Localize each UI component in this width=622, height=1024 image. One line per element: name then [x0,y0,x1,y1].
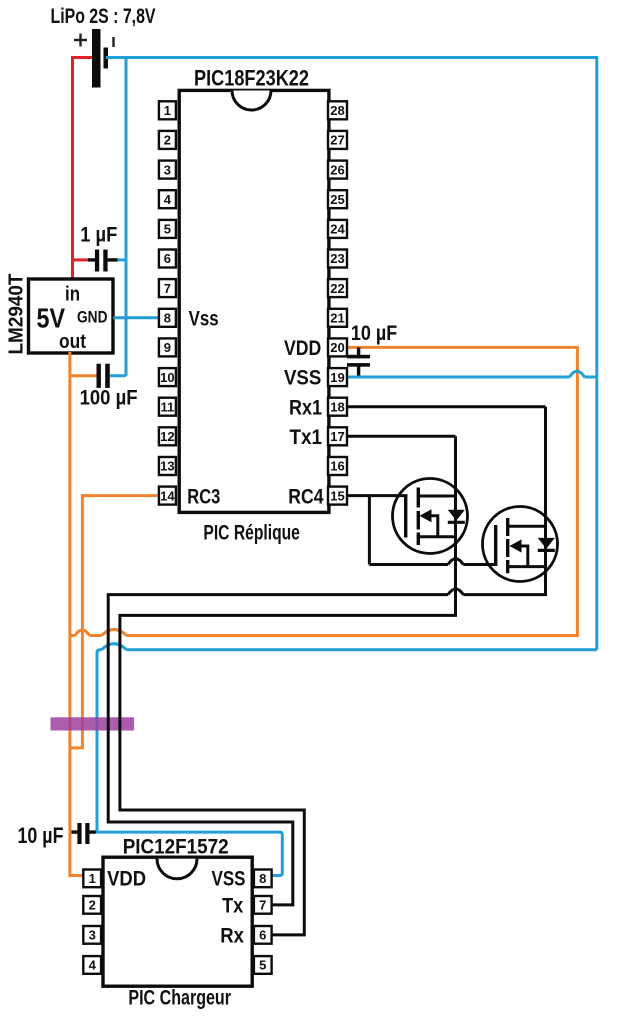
pin 3 PIC18 [159,161,176,179]
IC U3 PIC12F1572 body [103,857,252,986]
pin 11 PIC18 [159,398,176,416]
wire orange RC3 [70,496,160,748]
svg-text:Rx: Rx [220,924,244,947]
pin 4 PIC18 [159,190,176,208]
svg-text:12: 12 [160,429,174,444]
svg-text:PIC12F1572: PIC12F1572 [123,835,229,858]
wire blue hop over black verticals [102,644,127,650]
wire orange segment to main vertical [70,634,75,637]
svg-text:Tx1: Tx1 [290,426,323,449]
pin 21 PIC18 [328,309,347,327]
svg-text:PIC18F23K22: PIC18F23K22 [194,66,309,91]
wire blue to PIC12 VSS [96,832,282,875]
pin 8 PIC12 [254,870,272,888]
wire black hop over Q1 source vertical [448,559,463,565]
svg-text:Tx: Tx [222,894,243,917]
svg-text:9: 9 [164,340,171,355]
svg-text:25: 25 [330,192,344,207]
pin 28 PIC18 [328,101,347,119]
connector purple [51,717,135,730]
svg-text:21: 21 [330,311,344,326]
pin 24 PIC18 [328,220,347,238]
svg-text:VDD: VDD [284,337,321,360]
svg-text:8: 8 [259,871,266,886]
svg-text:10 µF: 10 µF [18,823,64,848]
pin 19 PIC18 [328,368,347,386]
svg-text:6: 6 [259,928,266,943]
svg-text:LiPo 2S : 7,8V: LiPo 2S : 7,8V [51,5,156,28]
wire black Rx1 to Q2 drain [347,405,546,408]
wire red battery+ to regulator in [73,58,93,281]
svg-text:11: 11 [161,399,175,414]
svg-text:7: 7 [259,898,266,913]
wire blue pin19 VSS [347,376,570,379]
svg-text:8: 8 [164,311,171,326]
wire blue down left vertical [97,650,102,832]
svg-text:RC3: RC3 [187,485,220,508]
wire orange hop over RC3 vertical [75,630,90,636]
pin 20 PIC18 [328,338,347,356]
svg-text:15: 15 [330,488,344,503]
svg-text:28: 28 [330,103,344,118]
svg-text:GND: GND [77,309,108,327]
svg-text:6: 6 [164,251,171,266]
wire blue hop over orange vertical [570,371,585,377]
svg-text:3: 3 [89,928,96,943]
wire orange VDD run right [127,347,578,635]
wire blue branch battery to caps [125,56,128,376]
pin 15 PIC18 [328,487,347,505]
svg-text:26: 26 [330,162,344,177]
svg-text:1 µF: 1 µF [80,224,117,247]
svg-text:PIC Chargeur: PIC Chargeur [128,986,231,1009]
capacitor C1 1uF [88,250,118,272]
transistor Q2 [483,507,558,582]
svg-text:VSS: VSS [212,867,246,890]
pin 23 PIC18 [328,250,347,268]
svg-text:13: 13 [160,459,174,474]
wire orange regulator out main vertical [70,352,84,876]
pin 4 PIC12 [83,956,101,974]
pin 22 PIC18 [328,279,347,297]
transistor Q1 [393,479,468,554]
pin 18 PIC18 [328,398,347,416]
svg-text:5V: 5V [37,303,66,334]
svg-text:18: 18 [330,399,344,414]
battery BT1 [74,29,114,88]
svg-text:16: 16 [330,459,344,474]
svg-text:LM2940T: LM2940T [6,274,28,355]
pin 27 PIC18 [328,131,347,149]
svg-text:20: 20 [330,340,344,355]
wire black pin15 RC4 to Q1 gate [347,494,408,497]
wire black Q2 drain-source vertical and run to PIC12 Tx [463,407,545,595]
IC U1 PIC18F23K22 body [179,90,329,512]
pin 3 PIC12 [83,926,101,944]
wire black gate tee vertical [368,496,371,565]
wire blue C1 lead [117,258,126,261]
pin 2 PIC18 [159,131,176,149]
svg-text:19: 19 [330,370,344,385]
wire black gate run to Q2 [369,563,448,566]
wire blue bottom run [127,648,597,651]
pin 7 PIC18 [159,279,176,297]
svg-text:2: 2 [164,133,171,148]
pin 25 PIC18 [328,190,347,208]
pin 10 PIC18 [159,368,176,386]
pin 16 PIC18 [328,457,347,475]
wire orange segment [90,634,102,637]
svg-text:Vss: Vss [189,307,219,330]
wire black run to PIC12 Tx [108,595,448,905]
svg-text:RC4: RC4 [288,485,323,508]
svg-text:10 µF: 10 µF [351,322,397,345]
svg-text:3: 3 [164,162,171,177]
pin 6 PIC12 [254,926,272,944]
pin 8 PIC18 [159,309,176,327]
svg-text:out: out [59,331,86,353]
svg-text:Rx1: Rx1 [289,396,322,419]
pin 26 PIC18 [328,161,347,179]
pin 1 PIC18 [159,101,176,119]
pin 13 PIC18 [159,457,176,475]
svg-text:10: 10 [160,370,174,385]
svg-text:1: 1 [164,103,171,118]
wire black hop over Q1 vertical [448,589,463,595]
svg-text:17: 17 [330,429,344,444]
wire blue segment to right vertical [585,376,597,379]
pin 1 PIC12 [83,870,101,888]
svg-text:5: 5 [164,222,171,237]
capacitor C3 10uF top [347,347,370,377]
pin 9 PIC18 [159,338,176,356]
wire blue regulator GND to pin8 [113,316,159,319]
svg-text:100 µF: 100 µF [80,386,138,409]
svg-text:1: 1 [89,871,96,886]
pin 2 PIC12 [83,896,101,914]
svg-text:14: 14 [160,488,175,503]
svg-text:23: 23 [330,251,344,266]
capacitor C2 100uF [97,364,110,388]
svg-text:27: 27 [330,133,344,148]
svg-text:22: 22 [330,281,344,296]
wire black Q1 drain-source vertical and run to PIC12 Rx [120,436,456,935]
wire blue battery- top rail [106,56,597,59]
svg-text:in: in [65,284,80,306]
wire black gate segment to Q2 gate bar [463,563,495,566]
regulator U2 LM2940 [29,279,114,353]
wire orange hop over black verticals [102,630,127,636]
wire red tee to C1 [73,258,89,261]
pin 5 PIC12 [254,956,272,974]
pin 17 PIC18 [328,427,347,445]
svg-text:PIC Réplique: PIC Réplique [203,522,300,545]
svg-text:7: 7 [164,281,171,296]
wire blue right vertical [595,56,598,650]
svg-text:4: 4 [89,958,97,973]
svg-text:VDD: VDD [107,867,146,890]
pin 5 PIC18 [159,220,176,238]
svg-text:2: 2 [89,898,96,913]
wire orange lead to C2 [70,374,97,377]
wire blue C2 lead [110,374,126,377]
pin 7 PIC12 [254,896,272,914]
svg-text:4: 4 [164,192,172,207]
svg-text:VSS: VSS [284,367,321,390]
wire black Tx1 to Q1 drain [347,435,456,438]
capacitor C4 10uF bottom [72,823,96,844]
pin 14 PIC18 [159,487,176,505]
pin 12 PIC18 [159,427,176,445]
svg-text:24: 24 [330,222,345,237]
pin 6 PIC18 [159,250,176,268]
svg-text:5: 5 [259,958,266,973]
